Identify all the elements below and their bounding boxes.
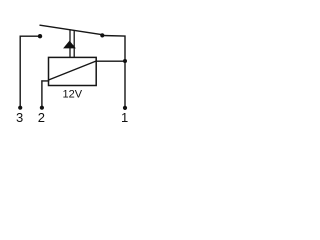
armature linkage right bar — [73, 31, 75, 58]
armature contact triangle — [63, 41, 76, 49]
wire terminal 2 — [41, 81, 43, 108]
switch blade S1 — [40, 25, 102, 35]
node junction right — [123, 59, 127, 63]
coil box outline — [49, 57, 97, 85]
armature linkage left bar — [69, 30, 71, 58]
terminal 1 dot — [123, 106, 127, 110]
node blade pivot — [100, 33, 104, 37]
wire pivot to right corner — [102, 36, 125, 108]
wire stub terminal 2 into box — [42, 80, 49, 82]
coil diagonal — [49, 61, 97, 80]
wire terminal 3 to fixed contact — [20, 36, 40, 107]
terminal 2 dot — [40, 106, 44, 110]
svg-text:12V: 12V — [63, 88, 83, 100]
node fixed contact — [38, 34, 42, 38]
svg-text:3: 3 — [16, 110, 23, 125]
svg-text:2: 2 — [38, 110, 45, 125]
terminal 3 dot — [18, 106, 22, 110]
wire junction to coil box — [96, 60, 125, 62]
svg-text:1: 1 — [121, 110, 128, 125]
